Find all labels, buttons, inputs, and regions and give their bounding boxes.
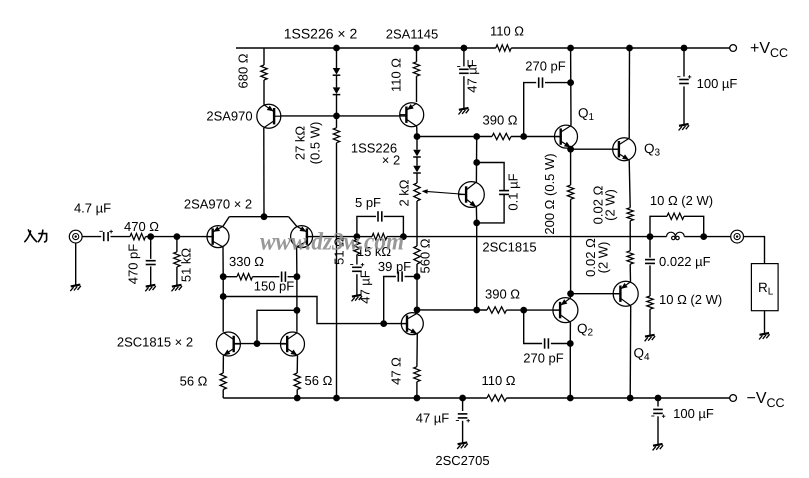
wire mirror right base: [257, 343, 287, 345]
wire bias collector up to top drive line: [475, 137, 477, 183]
svg-text:2SA970 × 2: 2SA970 × 2: [184, 197, 252, 212]
svg-text:39 pF: 39 pF: [378, 259, 411, 274]
wire +Vcc top rail: [236, 47, 730, 49]
node 270pF/Q1 collector line: [567, 79, 574, 86]
wire C to ground: [657, 416, 659, 444]
node right collector: [294, 273, 301, 280]
node VAS collector: [414, 307, 421, 314]
wire diff right base to feedback node: [306, 236, 357, 238]
wire to output RCA: [704, 236, 731, 238]
svg-text:390 Ω: 390 Ω: [482, 113, 517, 128]
resistor 10 ohm 2W (zobel): [647, 296, 653, 309]
wire R10 to ground: [649, 309, 651, 335]
svg-text:(2 W): (2 W): [603, 189, 618, 221]
wire -Vcc rail (right): [507, 397, 730, 399]
wire rail to R680: [263, 48, 265, 65]
wire C to R10: [649, 265, 651, 296]
wire node2 down to R51k: [176, 237, 178, 252]
capacitor 100 uF (top): [679, 80, 689, 84]
wire rail to C100uF: [683, 48, 685, 77]
node input bias: [174, 233, 181, 240]
wire R110 to 2SA1145 emitter: [416, 76, 418, 102]
ground (input connector): [70, 285, 81, 292]
wire C to R 470: [111, 236, 131, 238]
resistor 110 ohm (top rail): [496, 43, 511, 53]
wire R560 to miller node: [416, 264, 418, 277]
svg-text:× 2: × 2: [382, 153, 400, 168]
wire R470 to node: [146, 236, 151, 238]
ground (zobel): [645, 335, 656, 342]
node rail/110 top-left: [413, 45, 420, 52]
node 0.1uF bottom: [473, 220, 480, 227]
resistor 56 ohm (left): [220, 373, 226, 390]
wire Q1 emitter to Q3 base: [571, 148, 620, 150]
capacitor 0.1uF loop: [477, 163, 504, 191]
node top drive/bias collector: [473, 133, 480, 140]
wire 390 to Q2 base: [507, 309, 562, 311]
ground (51k): [172, 285, 183, 292]
wire bias emitter to lower drive line: [476, 223, 478, 310]
svg-text:270 pF: 270 pF: [525, 59, 566, 74]
wire R47 to rail: [416, 382, 418, 398]
wire mirror left emitter: [222, 356, 224, 373]
node 0.1uF top: [473, 159, 480, 166]
ground (feedback): [352, 295, 363, 302]
capacitor 270 pF (bottom) branch: [524, 310, 542, 343]
svg-text:680 Ω: 680 Ω: [236, 53, 251, 88]
wire C47 to ground: [356, 274, 358, 295]
svg-text:4.7 µF: 4.7 µF: [74, 201, 111, 216]
wire lower drive (left segment): [417, 309, 487, 311]
svg-text:100 µF: 100 µF: [673, 406, 714, 421]
svg-text:330 Ω: 330 Ω: [229, 254, 264, 269]
capacitor 0.1uF: [499, 191, 509, 195]
capacitor 0.022 uF: [645, 260, 655, 264]
svg-text:56 Ω: 56 Ω: [305, 373, 333, 388]
capacitor 270 pF (top) branch: [524, 83, 537, 137]
wire R680 to Q 2SA970 emitter: [263, 80, 265, 105]
node input filter: [147, 233, 154, 240]
wire left collector down: [222, 277, 224, 297]
wire R51k to ground: [176, 267, 178, 285]
transistor Q2: [553, 298, 578, 323]
wire to mirror right collector: [296, 277, 298, 332]
node Q2 emitter: [567, 290, 574, 297]
svg-text:470 pF: 470 pF: [126, 244, 141, 285]
svg-text:560 Ω: 560 Ω: [418, 238, 433, 273]
ground (47uF bottom): [457, 442, 468, 449]
capacitor 39 pF: [398, 271, 402, 281]
wire VAS emitter to R47: [416, 334, 418, 367]
wire R200 to Q2 emitter (crosses output line): [570, 199, 572, 293]
svg-text:200 Ω (0.5 W): 200 Ω (0.5 W): [542, 153, 557, 234]
wire 0.02 upper to 0.02 lower (crosses output): [629, 221, 631, 251]
svg-text:0.1 µF: 0.1 µF: [506, 173, 521, 210]
node VAS drive takeoff: [220, 293, 227, 300]
resistor 680 ohm: [261, 65, 267, 80]
svg-text:2SA1145: 2SA1145: [386, 27, 439, 42]
svg-text:47 µF: 47 µF: [465, 59, 480, 93]
wire pot to R560: [416, 201, 418, 246]
wire 0.02 lower to Q4 emitter: [629, 264, 631, 282]
resistor 47 ohm: [414, 367, 420, 382]
wire Q2 collector down: [569, 322, 571, 343]
transistor 2SC1815 mirror left: [216, 332, 240, 356]
wire Q2 emitter to Q4 base: [571, 293, 622, 295]
wire C to ground: [462, 421, 464, 443]
svg-text:110 Ω: 110 Ω: [481, 373, 515, 388]
svg-text:47 µF: 47 µF: [358, 270, 373, 304]
resistor 200 ohm 0.5W: [567, 185, 573, 199]
node miller cap / VAS collector chain: [414, 273, 421, 280]
resistor 51 kohm (input): [174, 252, 180, 267]
wire bias emitter down: [475, 207, 477, 223]
wire diff right collector down: [296, 247, 298, 277]
diode 1SS226 (1st): [333, 68, 341, 75]
capacitor 470pF: [146, 261, 156, 265]
wire Q2 emitter stub: [569, 294, 571, 299]
svg-text:47 µF: 47 µF: [416, 411, 450, 426]
diode 1SS226 (2nd): [333, 87, 341, 94]
transistor 2SC1815 (VAS): [401, 313, 423, 335]
wire rail to C100uF bottom: [657, 398, 659, 407]
capacitor 270 pF top: [539, 77, 543, 87]
capacitor 5 pF: [378, 211, 382, 221]
node Q1 emitter: [567, 146, 574, 153]
node output right: [700, 233, 707, 240]
node output L/zobel: [647, 233, 654, 240]
wire R51 to C47uF: [356, 255, 358, 265]
wire 2SA970 collector down to diff tail: [263, 128, 265, 217]
wire R27k down to -Vcc rail: [336, 143, 338, 398]
node lower drive/bias emitter: [473, 307, 480, 314]
ground (RL): [759, 333, 770, 340]
svg-text:2SA970: 2SA970: [206, 109, 252, 124]
wire output line (crossings): [403, 236, 650, 238]
wire D2 to bias node: [336, 95, 338, 116]
wire bias node to 2SA1145 base: [337, 115, 407, 117]
wire -Vcc rail (left): [223, 397, 487, 399]
wire VAS drive line: [223, 297, 384, 324]
wire diff left collector down: [222, 247, 224, 277]
capacitor 39 pF (miller) branch: [384, 277, 396, 324]
node feedback right: [400, 233, 407, 240]
diode 1SS226 (4th): [413, 166, 421, 173]
wire Q1 emitter to R200: [570, 149, 572, 185]
wire node down to C470pF: [150, 237, 152, 259]
resistor 27 kohm 0.5W: [333, 128, 339, 143]
wire Q3 collector to rail: [628, 48, 630, 138]
svg-text:2SC1815: 2SC1815: [482, 240, 536, 255]
resistor 110 ohm (bottom rail): [487, 395, 507, 401]
node bias chain top: [414, 133, 421, 140]
wire C470pF to ground: [150, 266, 152, 285]
wire 2SA1145 collector to bias chain: [416, 126, 418, 136]
wire D1 to D2: [336, 76, 338, 88]
node feedback: [354, 233, 361, 240]
resistor 110 ohm (2SA1145 emitter): [413, 62, 419, 76]
svg-text:100 µF: 100 µF: [697, 76, 738, 91]
capacitor 100 uF (bottom): [653, 409, 663, 413]
transistor Q4: [613, 281, 638, 306]
resistor 10 ohm 2W (bridge): [667, 213, 684, 219]
ground (100uF top): [679, 124, 690, 131]
node left collector: [220, 273, 227, 280]
node VAS base: [380, 320, 387, 327]
resistor 0.02 ohm 2W (lower): [627, 251, 633, 264]
svg-text:0.022 µF: 0.022 µF: [659, 254, 711, 269]
svg-text:150 pF: 150 pF: [254, 279, 295, 294]
node rail/47uF bottom: [459, 395, 466, 402]
node rail/diode chain: [333, 45, 340, 52]
transistor 2SC1815 (bias spreader): [459, 182, 485, 208]
wire 390 to Q1 base: [511, 136, 562, 138]
node rail/27k: [333, 395, 340, 402]
svg-text:56 Ω: 56 Ω: [180, 374, 208, 389]
node rail/Q2: [567, 395, 574, 402]
capacitor 5 pF loop: [357, 216, 376, 236]
resistor 15 kohm (feedback): [372, 233, 387, 239]
resistor 56 ohm (right): [294, 373, 300, 390]
svg-text:47 Ω: 47 Ω: [389, 357, 404, 385]
ground (47uF top): [459, 108, 470, 115]
node rail/Q4: [627, 395, 634, 402]
svg-text:110 Ω: 110 Ω: [389, 58, 404, 92]
wire Q2 collector to -Vcc rail: [569, 344, 571, 399]
transistor 2SA970 diff right: [291, 226, 313, 248]
svg-text:51 kΩ: 51 kΩ: [179, 248, 194, 283]
node 270pF bottom tap: [520, 307, 527, 314]
svg-text:www.dz3w.com: www.dz3w.com: [260, 229, 404, 256]
transistor Q1: [555, 125, 578, 148]
wire R56 right to rail: [296, 390, 298, 399]
wire rail to C47uF: [463, 48, 465, 66]
resistor 330 ohm: [237, 274, 253, 280]
resistor 470 ohm (series input): [130, 233, 146, 239]
node rail/Q1: [567, 45, 574, 52]
svg-text:110 Ω: 110 Ω: [490, 24, 524, 39]
wire rail to C47uF bottom: [462, 398, 464, 411]
-Vcc terminal: [730, 395, 737, 402]
svg-text:(0.5 W): (0.5 W): [308, 122, 323, 165]
svg-text:1SS226 × 2: 1SS226 × 2: [284, 26, 358, 42]
wire Q1 collector to rail: [570, 48, 572, 126]
node rail/47uF top: [461, 45, 468, 52]
wire D3 to D4: [416, 157, 418, 165]
output RCA connector: [731, 230, 744, 243]
svg-text:2 kΩ: 2 kΩ: [397, 179, 412, 206]
node rail/47ohm: [414, 395, 421, 402]
wire rail to R110: [416, 48, 418, 62]
wire diff left emitter to tail: [223, 217, 229, 227]
wire node to node2: [151, 236, 177, 238]
inductor (output): [667, 232, 685, 240]
capacitor 4.7uF (input coupling): [104, 232, 108, 241]
transistor 2SC1815 mirror right: [281, 332, 305, 356]
wire mirror base tie: [257, 310, 297, 343]
wire input connector to ground: [75, 243, 77, 285]
capacitor 47 uF (bottom): [458, 414, 468, 418]
wire RL to ground: [764, 311, 766, 334]
svg-text:2SC1815 × 2: 2SC1815 × 2: [117, 335, 193, 350]
wire mirror left base: [234, 343, 257, 345]
wire diff tail: [229, 216, 288, 218]
node diff pair tail: [261, 213, 268, 220]
wire 2SA970 base to bias node: [281, 115, 337, 117]
svg-text:(2 W): (2 W): [596, 242, 611, 274]
transistor 2SA970 (current source): [257, 104, 281, 128]
transistor 2SA970 diff left: [207, 226, 229, 248]
wire node to R27k: [336, 116, 338, 128]
potentiometer 2 kohm: [414, 183, 420, 201]
wire C47uF to ground: [463, 76, 465, 108]
wire C100uF to ground: [683, 86, 685, 124]
wire RCA to C 4.7uF: [82, 236, 101, 238]
node rail/Q3: [626, 45, 633, 52]
wire mirror right emitter: [296, 356, 298, 373]
input RCA connector: [69, 230, 82, 243]
svg-text:10 Ω (2 W): 10 Ω (2 W): [659, 292, 722, 307]
node rail/100uF top: [681, 45, 688, 52]
wire VAS base: [384, 323, 408, 325]
input label 入力 (drawn strokes): [25, 230, 47, 242]
diode 1SS226 (3rd): [413, 150, 421, 157]
resistor 390 ohm (bottom): [487, 307, 507, 313]
+Vcc terminal: [730, 45, 737, 52]
svg-text:270 pF: 270 pF: [523, 351, 564, 366]
node rail/100uF bottom: [655, 395, 662, 402]
capacitor 47 uF (top): [459, 69, 469, 73]
wire D4 to pot: [416, 173, 418, 183]
wire top drive line (left segment): [417, 136, 492, 138]
pot wiper arrow to bias transistor base: [425, 191, 467, 194]
wire rail to D1: [336, 48, 338, 68]
node mirror diode connection: [294, 307, 301, 314]
node 270pF top tap: [520, 133, 527, 140]
ground (100uF bottom): [653, 444, 664, 451]
capacitor 270 pF bottom: [545, 338, 549, 348]
wire node2 to Q left diff base: [177, 236, 214, 238]
svg-text:5 pF: 5 pF: [355, 195, 381, 210]
wire Q3 emitter down: [629, 160, 630, 208]
node bias (bases junction): [333, 113, 340, 120]
node mirror bases: [254, 340, 261, 347]
wire to mirror left collector: [222, 297, 224, 332]
transistor Q3: [613, 138, 636, 161]
svg-text:10 Ω (2 W): 10 Ω (2 W): [650, 193, 713, 208]
wire output to C0.022: [649, 237, 651, 258]
wire diff right emitter to tail: [289, 217, 297, 227]
svg-text:27 kΩ: 27 kΩ: [293, 126, 308, 161]
ground (470pF): [145, 285, 156, 292]
capacitor 47 uF (feedback): [352, 267, 362, 271]
10 ohm / inductor bridge: [650, 216, 667, 236]
capacitor 150 pF: [282, 272, 286, 282]
svg-text:2SC2705: 2SC2705: [435, 453, 489, 468]
wire down to VAS collector node: [416, 277, 418, 310]
resistor 0.02 ohm 2W (upper): [627, 208, 633, 221]
resistor 390 ohm (top): [492, 133, 511, 139]
svg-text:390 Ω: 390 Ω: [485, 287, 520, 302]
wire Q4 collector to -Vcc rail: [629, 306, 632, 398]
transistor 2SA1145: [400, 103, 424, 127]
node rail/56R: [294, 395, 301, 402]
wire to D3: [416, 137, 418, 150]
resistor 560 ohm: [414, 246, 420, 264]
resistor 51 ohm (feedback): [354, 240, 360, 255]
wire R56 left to rail corner: [222, 390, 224, 399]
svg-text:470 Ω: 470 Ω: [124, 219, 159, 234]
wire RCA to RL: [744, 237, 765, 264]
node 270pF bottom right: [567, 340, 574, 347]
